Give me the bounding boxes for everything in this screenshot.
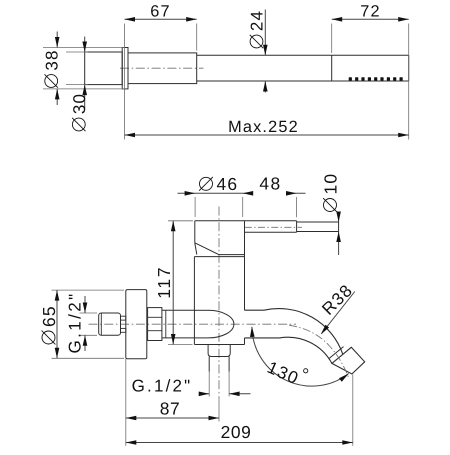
nipple tabs bbox=[121, 316, 126, 320]
spout aerator block bbox=[332, 347, 365, 374]
R38 leader bbox=[322, 292, 355, 334]
outlet nut below body bbox=[208, 345, 230, 357]
dim dia65 bbox=[52, 289, 125, 291]
svg-text:38: 38 bbox=[42, 49, 61, 70]
dim dia46 / 48 chain bbox=[178, 192, 252, 194]
svg-text:10: 10 bbox=[320, 173, 340, 195]
wall flange plate bbox=[126, 290, 147, 359]
inlet pipe bbox=[162, 309, 195, 311]
dim 209 bbox=[352, 375, 354, 446]
spray head joint line bbox=[331, 55, 333, 81]
hand shower wand bbox=[197, 54, 409, 56]
mixer body bbox=[194, 256, 244, 258]
spout nozzle joint line bbox=[329, 347, 344, 359]
hand shower end cap bbox=[85, 52, 123, 85]
dim G.1/2 bottom (outlet) bbox=[208, 372, 210, 397]
dim G.1/2 left bbox=[80, 312, 98, 314]
svg-text:48: 48 bbox=[259, 174, 281, 194]
label dia65 bbox=[39, 305, 59, 344]
dim 67 bbox=[125, 18, 197, 20]
hand shower collar ring bbox=[122, 48, 128, 89]
svg-text:87: 87 bbox=[160, 399, 181, 419]
svg-text:65: 65 bbox=[39, 305, 59, 327]
hex nut bbox=[148, 308, 162, 341]
label dia46 bbox=[199, 174, 238, 194]
dim dia38 line bbox=[56, 32, 58, 48]
svg-text:G.1/2": G.1/2" bbox=[66, 291, 85, 353]
label dia24 bbox=[248, 10, 267, 48]
lever handle bbox=[245, 231, 297, 233]
svg-text:67: 67 bbox=[150, 2, 171, 20]
dim 130 deg arc bbox=[252, 327, 349, 386]
svg-text:G.1/2": G.1/2" bbox=[132, 377, 193, 396]
dim Max.252 bbox=[125, 134, 409, 136]
label dia38 bbox=[42, 49, 61, 87]
hand shower centerline bbox=[120, 67, 204, 69]
outlet threaded tube bbox=[208, 357, 210, 372]
dim dia24 leader line bbox=[264, 10, 266, 56]
svg-text:30: 30 bbox=[70, 93, 89, 114]
pipe dome end inside body bbox=[208, 310, 234, 338]
spout tube outer edge bbox=[245, 309, 343, 355]
dim dia38 extension lines bbox=[43, 47, 124, 49]
dim 117 bbox=[168, 220, 193, 222]
svg-text:117: 117 bbox=[154, 266, 174, 299]
dim 67 extension lines bbox=[124, 24, 126, 140]
svg-text:72: 72 bbox=[360, 2, 381, 20]
dim dia10 bbox=[338, 216, 340, 222]
spray nozzle dots bbox=[349, 77, 352, 80]
dim 87 bbox=[125, 359, 127, 446]
wall nipple G1/2 bbox=[99, 313, 121, 335]
svg-text:46: 46 bbox=[217, 174, 239, 194]
spout axis centerline bbox=[289, 325, 349, 377]
label dia30 bbox=[70, 93, 89, 131]
lever rod bbox=[297, 221, 339, 223]
dim dia30 extension lines bbox=[66, 51, 88, 53]
svg-text:209: 209 bbox=[221, 422, 252, 442]
hand shower grip bbox=[128, 53, 197, 84]
cartridge cap outline bbox=[195, 220, 297, 222]
svg-text:Max.252: Max.252 bbox=[228, 118, 299, 136]
dim dia30 line bbox=[84, 37, 86, 53]
dim 72 extension line bbox=[331, 24, 333, 54]
ext lines for dia46/48 bbox=[194, 197, 196, 217]
label dia10 bbox=[320, 173, 340, 212]
svg-text:24: 24 bbox=[248, 10, 267, 31]
spout tube inner edge bbox=[245, 337, 332, 363]
spray head end edge bbox=[408, 55, 410, 81]
mixer body vertical centerline bbox=[218, 207, 220, 398]
mixer horizontal centerline bbox=[89, 323, 297, 325]
lever centerline bbox=[245, 226, 302, 228]
dim 72 bbox=[332, 18, 409, 20]
